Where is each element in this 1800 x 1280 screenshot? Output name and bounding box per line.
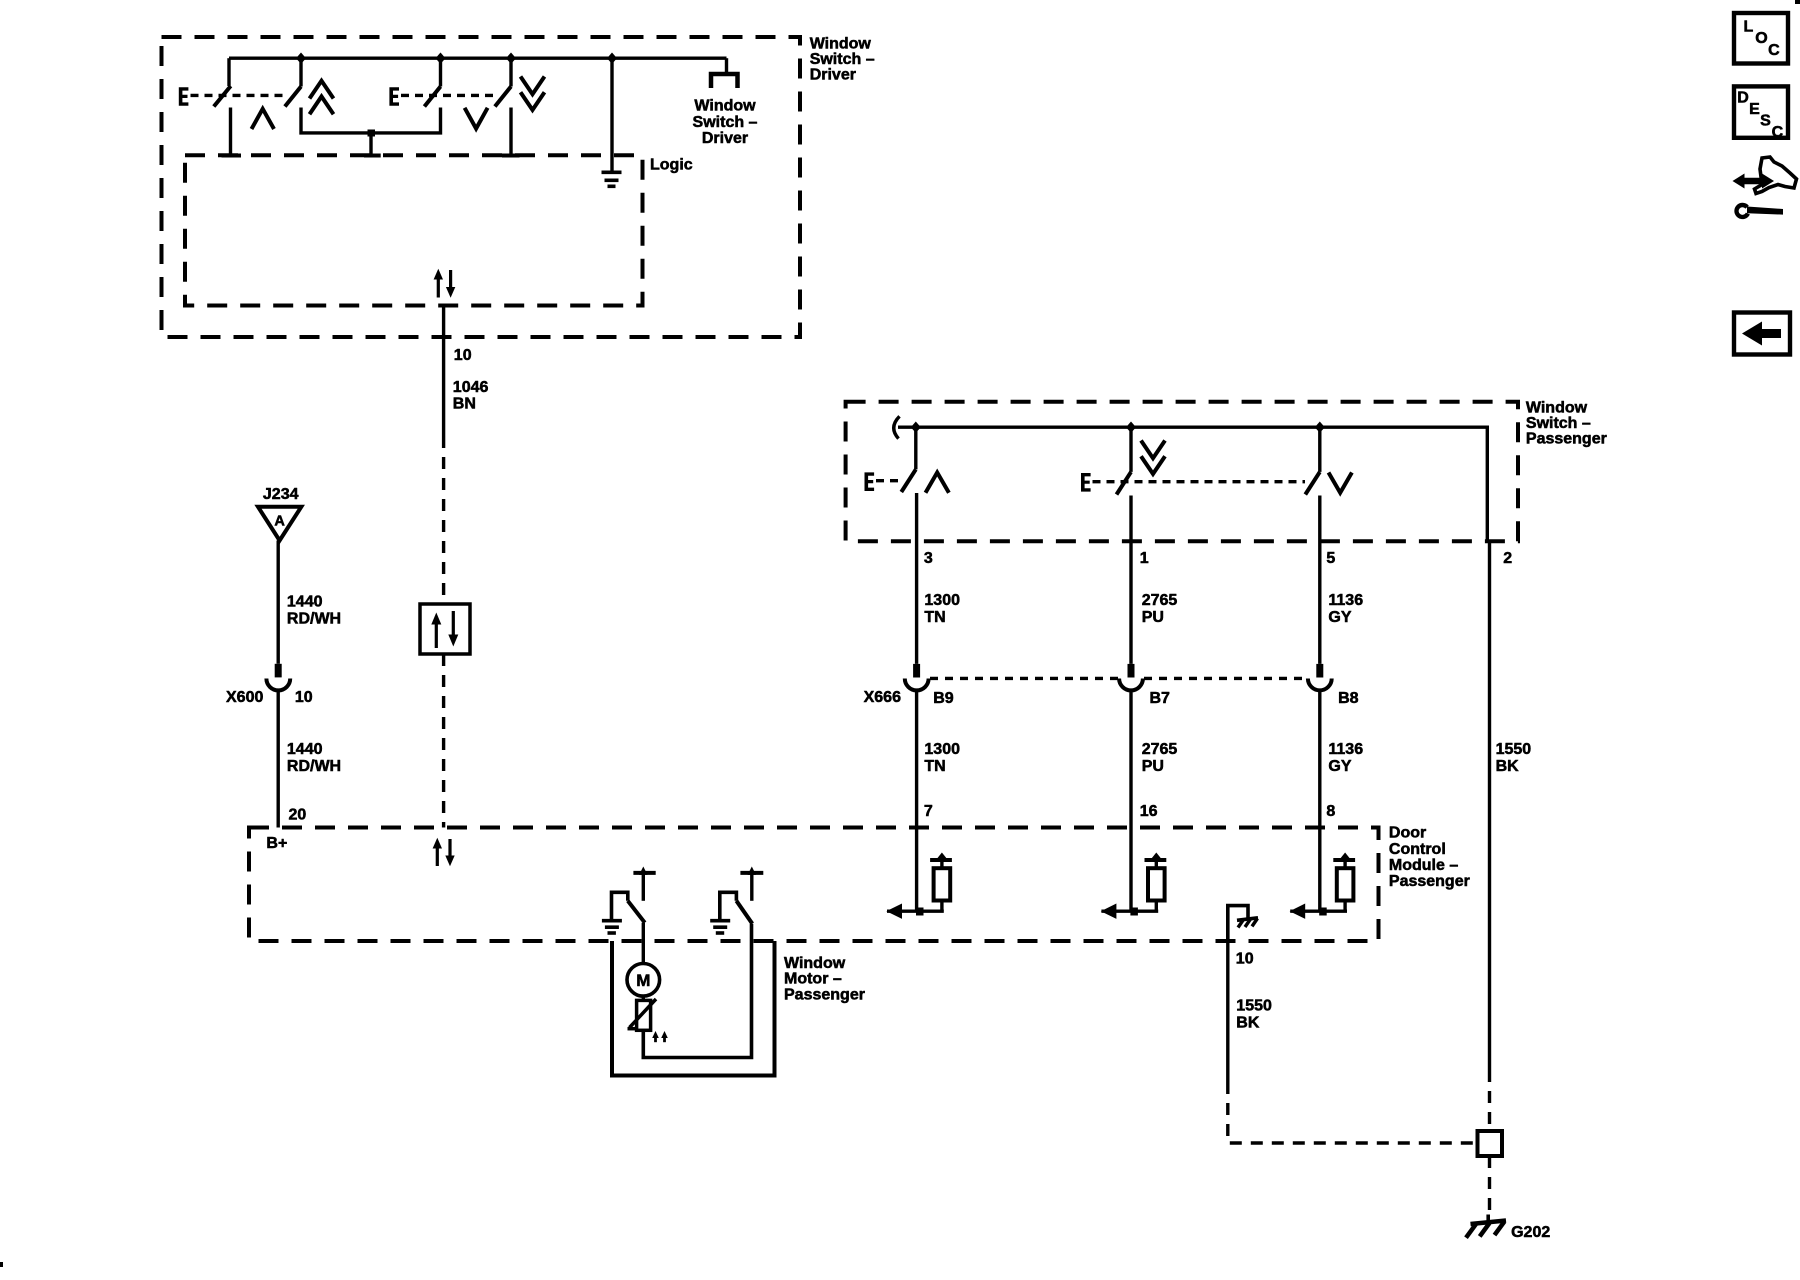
node splice box S-junction xyxy=(1478,1131,1503,1156)
svg-text:Driver: Driver xyxy=(702,130,748,147)
svg-text:RD/WH: RD/WH xyxy=(287,610,341,627)
svg-text:Switch –: Switch – xyxy=(810,51,875,68)
label E (passenger switch 1) xyxy=(865,472,875,491)
ground motor switch right xyxy=(710,892,736,933)
wire circuit 1046 dashed (in-line) xyxy=(442,436,445,604)
symbol momentary curl at bus end xyxy=(894,416,900,438)
svg-text:Logic: Logic xyxy=(650,157,693,174)
node junction dot driver bus at x440 xyxy=(436,53,446,64)
resistor R3 (circuit 1136 pull-up) xyxy=(1290,828,1356,919)
svg-text:3: 3 xyxy=(924,550,933,567)
svg-text:20: 20 xyxy=(289,807,307,824)
svg-text:GY: GY xyxy=(1328,758,1351,775)
wire E dashed link (driver pair 1) xyxy=(191,94,289,97)
component box Window Switch - Driver (outer dashed) xyxy=(162,37,801,337)
svg-text:D: D xyxy=(1737,90,1749,107)
svg-text:X600: X600 xyxy=(226,689,263,706)
wire circuit 1550 from pin 10 solid xyxy=(1226,941,1229,1082)
component box Window Switch - Passenger (dashed) xyxy=(846,402,1518,542)
node junction dot driver bus at x301 xyxy=(296,53,306,64)
label wire 1550 BK left xyxy=(1236,998,1272,1032)
ground motor switch left xyxy=(602,892,628,933)
svg-text:Switch –: Switch – xyxy=(1526,415,1591,432)
svg-text:S: S xyxy=(1760,112,1771,129)
label wire 1440 RD/WH lower xyxy=(287,741,341,775)
wire circuit 1046 dashed to module xyxy=(442,654,445,828)
svg-text:2765: 2765 xyxy=(1142,741,1178,758)
svg-text:J234: J234 xyxy=(263,486,299,503)
symbol double down chevron (passenger auto-down) xyxy=(1141,441,1165,474)
svg-text:Window: Window xyxy=(810,35,872,52)
svg-text:TN: TN xyxy=(924,609,945,626)
label Window Motor - Passenger xyxy=(784,955,865,1004)
svg-text:X666: X666 xyxy=(864,689,901,706)
svg-text:PU: PU xyxy=(1142,609,1164,626)
symbol down arrow chevron (passenger) xyxy=(1329,473,1352,493)
svg-text:Motor –: Motor – xyxy=(784,970,842,987)
svg-text:Window: Window xyxy=(694,97,756,114)
node junction dot driver bus at x612 xyxy=(607,53,617,64)
svg-text:7: 7 xyxy=(924,803,933,820)
svg-text:M: M xyxy=(636,971,650,990)
label E (driver pair 2) xyxy=(389,87,399,106)
ground driver box internal xyxy=(602,58,622,186)
wire E dashed link (passenger switch 1) xyxy=(876,479,903,482)
svg-text:Window: Window xyxy=(1526,400,1588,417)
switch driver window-down express (right pair, right blade) xyxy=(495,58,520,155)
svg-text:10: 10 xyxy=(295,689,313,706)
wire circuit 1136 lower xyxy=(1318,691,1321,828)
svg-text:BK: BK xyxy=(1496,758,1520,775)
svg-text:BN: BN xyxy=(453,396,476,413)
artifact mark top-right corner xyxy=(1795,0,1800,4)
label E (passenger switch 2) xyxy=(1081,473,1091,492)
icon wrench (sidebar) xyxy=(1734,203,1783,219)
wire circuit 1440 lower segment xyxy=(277,691,280,828)
label wire 1136 GY upper xyxy=(1328,592,1363,626)
svg-text:1300: 1300 xyxy=(924,592,960,609)
wire lower contact rail (driver pairs link) xyxy=(301,132,441,133)
resistor R2 (circuit 2765 pull-up) xyxy=(1101,828,1167,919)
svg-text:B9: B9 xyxy=(933,690,954,707)
svg-text:10: 10 xyxy=(1236,951,1254,968)
wire E dashed link (passenger switches 2-3) xyxy=(1093,480,1306,483)
switch motor polarity right blade xyxy=(736,901,752,924)
switch passenger auto-down xyxy=(1117,427,1132,541)
icon back-arrow box (sidebar) xyxy=(1734,313,1790,355)
node junction dot passenger bus at x916 xyxy=(911,422,921,433)
switch motor polarity left blade xyxy=(628,901,645,923)
wire circuit 2765 upper xyxy=(1129,541,1132,664)
wire motor return loop xyxy=(643,924,751,1058)
svg-text:TN: TN xyxy=(924,758,945,775)
wire X666 harness dotted link B9-B7 xyxy=(930,677,1118,680)
symbol up/down arrows at logic output xyxy=(434,269,456,298)
svg-text:2765: 2765 xyxy=(1142,592,1178,609)
wire circuit 1136 upper xyxy=(1318,541,1321,664)
svg-text:1440: 1440 xyxy=(287,594,323,611)
label E (driver pair 1) xyxy=(179,87,189,106)
svg-text:1550: 1550 xyxy=(1236,998,1272,1015)
wire motor left lead xyxy=(642,923,645,964)
node junction square on rail xyxy=(368,130,376,137)
svg-text:16: 16 xyxy=(1140,803,1158,820)
node junction dot passenger bus at x1131 xyxy=(1126,422,1136,433)
svg-text:E: E xyxy=(1749,101,1760,118)
resistor R1 (circuit 1300 pull-up) xyxy=(886,828,952,919)
wire circuit 2765 lower xyxy=(1129,691,1132,828)
wire circuit 1046 solid from Logic xyxy=(442,306,445,437)
label Window Switch - Driver (connector, in box) xyxy=(693,97,758,147)
svg-text:10: 10 xyxy=(454,347,472,364)
icon LOC box (sidebar) xyxy=(1734,13,1788,64)
symbol double up chevron (express up) xyxy=(310,81,334,114)
symbol double up arrows (motor) xyxy=(652,1031,668,1042)
connector X600 terminal 10 xyxy=(266,664,290,691)
pin terminal T up (motor switch left) xyxy=(633,867,655,901)
svg-text:Control: Control xyxy=(1389,841,1446,858)
pin T-bar terminal rail tap xyxy=(364,154,381,158)
label wire 1300 TN upper xyxy=(924,592,960,626)
svg-text:Module –: Module – xyxy=(1389,857,1458,874)
switch driver window-down manual (right pair, left blade) xyxy=(424,58,440,131)
svg-text:B7: B7 xyxy=(1150,690,1171,707)
node junction dot passenger bus at x1320 xyxy=(1315,422,1325,433)
label Door Control Module - Passenger xyxy=(1389,825,1470,891)
svg-text:Window: Window xyxy=(784,955,846,972)
label wire 1136 GY lower xyxy=(1328,741,1363,775)
svg-text:2: 2 xyxy=(1503,550,1512,567)
artifact mark bottom-left edge xyxy=(0,1262,3,1267)
ground G202 chassis symbol xyxy=(1466,1215,1506,1238)
component box Door Control Module - Passenger (dashed) xyxy=(249,828,1379,942)
symbol serial data box (up/down arrows) xyxy=(420,604,470,654)
symbol double down chevron (express down) xyxy=(521,77,545,110)
wire driver supply bus xyxy=(229,57,727,60)
icon double-arrow with outline (sidebar) xyxy=(1733,157,1797,194)
switch passenger window-down xyxy=(1305,427,1320,541)
wire E dashed link (driver pair 2) xyxy=(401,94,497,97)
ground chassis symbol module internal xyxy=(1228,906,1258,941)
component box Logic (inner dashed) xyxy=(185,155,643,305)
label wire 1046 BN xyxy=(453,379,489,413)
wire circuit 1550 BK right vertical xyxy=(1488,541,1491,1070)
svg-text:B+: B+ xyxy=(266,835,287,852)
svg-text:1136: 1136 xyxy=(1328,592,1363,609)
wire X666 harness dotted link B7-B8 xyxy=(1144,677,1307,680)
svg-text:RD/WH: RD/WH xyxy=(287,758,341,775)
label wire 1300 TN lower xyxy=(924,741,960,775)
svg-text:Switch –: Switch – xyxy=(693,114,758,131)
svg-text:1300: 1300 xyxy=(924,741,960,758)
svg-text:1: 1 xyxy=(1140,550,1149,567)
symbol down arrow chevron (driver pair 2) xyxy=(465,108,488,129)
svg-text:B8: B8 xyxy=(1338,690,1359,707)
wire circuit 1550 right dashed segment xyxy=(1488,1070,1491,1131)
symbol up arrow chevron (passenger) xyxy=(926,473,949,493)
connector header Window Switch - Driver xyxy=(711,58,738,88)
svg-text:G202: G202 xyxy=(1511,1224,1550,1241)
icon DESC box (sidebar) xyxy=(1734,86,1788,140)
node junction dot driver bus at x511 xyxy=(506,53,516,64)
svg-text:A: A xyxy=(274,514,285,530)
wire circuit 1300 upper xyxy=(915,541,918,664)
svg-text:Driver: Driver xyxy=(810,67,856,84)
label wire 2765 PU lower xyxy=(1142,741,1178,775)
svg-text:BK: BK xyxy=(1236,1014,1260,1031)
thermistor PTC breaker xyxy=(628,996,657,1030)
svg-text:Passenger: Passenger xyxy=(1526,431,1607,448)
label Window Switch - Passenger (outside box) xyxy=(1526,400,1607,448)
switch driver window-up manual (left pair, left blade) xyxy=(214,58,241,155)
label wire 1550 BK right xyxy=(1496,741,1532,775)
symbol fuse/connector triangle J234 xyxy=(258,507,301,541)
svg-text:5: 5 xyxy=(1326,550,1335,567)
switch passenger window-up xyxy=(901,427,916,541)
connector X666 terminal B7 xyxy=(1119,664,1143,691)
wire circuit 1550 dashed elbow xyxy=(1228,1082,1478,1143)
svg-text:1550: 1550 xyxy=(1496,741,1532,758)
label Window Switch - Driver (outside box, top right) xyxy=(810,35,875,83)
svg-text:PU: PU xyxy=(1142,758,1164,775)
wire dashed to G202 xyxy=(1488,1156,1491,1217)
wire rail center tap to Logic xyxy=(369,133,372,155)
svg-text:Door: Door xyxy=(1389,825,1426,842)
svg-text:C: C xyxy=(1772,124,1784,141)
label wire 1440 RD/WH upper xyxy=(287,594,341,628)
svg-text:O: O xyxy=(1755,30,1767,47)
label wire 2765 PU upper xyxy=(1142,592,1178,626)
svg-text:L: L xyxy=(1744,18,1754,35)
svg-text:1136: 1136 xyxy=(1328,741,1363,758)
motor M1 Window Motor xyxy=(627,964,660,997)
wire circuit 1440 upper segment xyxy=(277,541,280,664)
connector X666 terminal B9 xyxy=(905,664,929,690)
pin terminal T up (motor switch right) xyxy=(740,867,763,901)
svg-text:1046: 1046 xyxy=(453,379,489,396)
symbol up/down arrows at module serial input xyxy=(433,838,455,866)
svg-text:1440: 1440 xyxy=(287,741,323,758)
connector X666 terminal B8 xyxy=(1308,664,1332,690)
symbol up arrow chevron (driver pair 1) xyxy=(252,109,275,129)
svg-text:C: C xyxy=(1768,42,1780,59)
svg-text:GY: GY xyxy=(1328,609,1351,626)
svg-text:Passenger: Passenger xyxy=(1389,873,1470,890)
svg-text:Passenger: Passenger xyxy=(784,987,865,1004)
switch driver window-up express (left pair, right blade) xyxy=(285,58,301,131)
component box Window Motor - Passenger (solid U) xyxy=(612,941,775,1076)
wire circuit 1300 lower xyxy=(915,691,918,828)
svg-text:8: 8 xyxy=(1326,803,1335,820)
wire passenger supply bus xyxy=(898,427,1487,541)
